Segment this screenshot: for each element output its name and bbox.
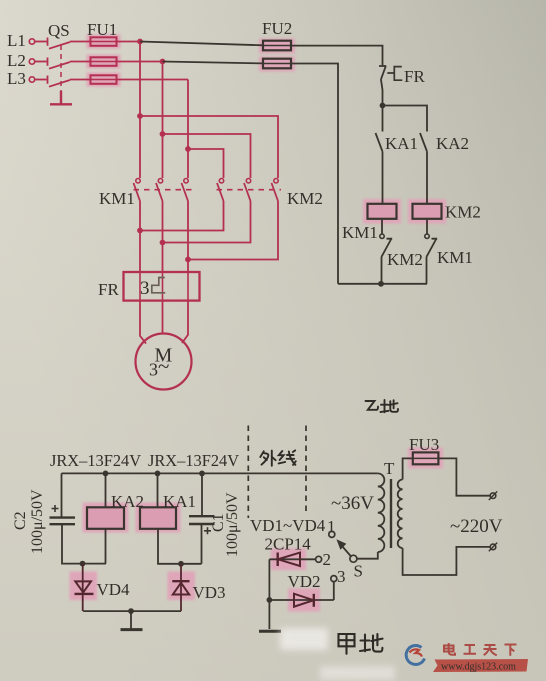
capacitor C2 — [50, 516, 76, 518]
white smudge bottom — [320, 666, 395, 680]
diode VD1 — [278, 553, 300, 567]
boundary dashed line 1 — [247, 426, 249, 519]
phase 3 below contact — [187, 201, 189, 272]
wire secondary top to FU3 — [403, 458, 413, 479]
svg-text:FR: FR — [98, 280, 119, 299]
node rail KA1 — [155, 471, 161, 477]
terminal L3 — [29, 77, 34, 82]
wire L3 to QS — [35, 79, 47, 81]
node cross 2 — [160, 240, 166, 246]
text 线 (xian, line) — [279, 450, 296, 465]
svg-text:L2: L2 — [7, 51, 26, 70]
transformer T primary winding — [378, 473, 385, 552]
wire L2 to QS — [35, 61, 47, 63]
wire L3 to KM2 contact a — [188, 149, 224, 178]
svg-text:FU2: FU2 — [262, 19, 292, 38]
node L3-KM2 branch — [185, 146, 191, 152]
node FR-KA split — [380, 103, 386, 109]
svg-text:QS: QS — [48, 21, 70, 40]
svg-text:L1: L1 — [7, 31, 26, 50]
highlighter mark VD4 — [70, 572, 98, 601]
wire KM2-c to phase3 — [188, 201, 278, 260]
fuse FU1-2 — [91, 57, 117, 66]
node cross 3 — [185, 257, 191, 263]
relay coil KA2 — [87, 507, 124, 529]
wire FU1 to phase bus 3 — [117, 79, 189, 81]
wire KM2-b to phase2 — [163, 201, 251, 243]
wire rail to KA1 coil — [157, 473, 159, 507]
node L2-KM2 branch — [160, 131, 166, 137]
boundary dashed line 2 — [305, 426, 307, 514]
capacitor C1 — [189, 515, 215, 517]
wire VD2 through — [269, 599, 333, 601]
wire FR to motor right — [182, 301, 188, 343]
contactor KM2 contact a — [219, 179, 223, 183]
wire L1 to KM2 contact c — [140, 116, 278, 178]
highlighter mark KM2 coil — [408, 199, 446, 224]
wire VD1 through — [269, 558, 315, 560]
switch S pivot — [350, 555, 357, 562]
svg-text:1: 1 — [327, 517, 336, 536]
wire FU2-2 long drop — [291, 64, 338, 284]
highlighter mark FU2 fuses — [259, 39, 295, 54]
svg-text:KM2: KM2 — [387, 250, 423, 269]
relay contact KA2 — [420, 133, 427, 204]
svg-text:KA1: KA1 — [385, 134, 418, 153]
svg-text:100μ/50V: 100μ/50V — [29, 489, 46, 554]
fuse FU2-1 — [263, 41, 291, 51]
svg-text:~36V: ~36V — [331, 493, 374, 514]
contactor KM1 contact 1 — [136, 179, 140, 183]
wire FR to motor mid — [162, 301, 164, 334]
contactor KM2 contact b — [246, 179, 250, 183]
watermark logo swirl — [406, 645, 424, 664]
wire split to KA2 branch — [383, 106, 428, 132]
fuse FU3 — [413, 452, 439, 464]
vertical wire to ground A — [268, 559, 270, 629]
svg-text:KM2: KM2 — [287, 189, 323, 208]
interlock contact KM1-NC — [425, 234, 429, 238]
phase wire 2 vertical — [162, 62, 164, 179]
highlighter mark KA1 coil — [136, 503, 181, 533]
ground symbol A — [259, 630, 281, 633]
wire FU2-1 to FR contact — [291, 46, 383, 66]
phase 1 below contact — [139, 201, 141, 272]
wire KA2 to VD4 node — [105, 529, 107, 564]
wire KM1 coil to NC — [381, 219, 383, 234]
wire rail down to C2 — [61, 473, 63, 517]
FR trip symbol — [387, 67, 402, 81]
svg-text:S: S — [354, 562, 363, 581]
node VD4 top — [80, 561, 86, 567]
text 乙 (yi, location B) — [366, 401, 379, 410]
highlighter mark VD1 — [271, 549, 306, 571]
svg-text:FU1: FU1 — [87, 20, 117, 39]
relay contact KA1 — [376, 133, 383, 204]
node rail C1 — [199, 471, 205, 477]
C1 plus sign — [204, 527, 211, 534]
C2 plus sign — [52, 505, 59, 512]
transformer core — [390, 479, 392, 548]
node L1-KM2 branch — [137, 113, 143, 119]
phase 2 below contact — [162, 201, 164, 272]
thermal contact FR — [379, 66, 386, 106]
svg-text:www.dgjs123.com: www.dgjs123.com — [441, 662, 516, 673]
ground bus left — [83, 610, 181, 612]
relay coil KA1 — [140, 507, 176, 529]
switch S contact 1 — [329, 531, 335, 537]
node rail KA2 — [103, 471, 109, 477]
svg-text:2: 2 — [323, 550, 332, 569]
wire C2 to VD4 node — [62, 524, 106, 563]
svg-text:L3: L3 — [7, 69, 26, 88]
diode VD3 — [172, 564, 189, 611]
watermark text 电工天下 — [444, 643, 517, 656]
text 甲 (jia, location A) — [339, 634, 355, 654]
thermal relay FR heater box — [124, 272, 200, 301]
node L2-FU2 — [160, 59, 166, 65]
motor M circle — [136, 334, 192, 390]
control bottom bus — [338, 283, 427, 285]
wire C1 down — [201, 524, 203, 564]
svg-text:VD2: VD2 — [288, 572, 321, 591]
svg-text:VD3: VD3 — [193, 583, 226, 602]
svg-text:FU3: FU3 — [409, 435, 439, 454]
svg-text:KA2: KA2 — [436, 134, 469, 153]
switch QS pole 1 — [48, 38, 91, 49]
wire VD2 to contact 3 — [333, 582, 335, 600]
svg-text:KM1: KM1 — [99, 189, 135, 208]
QS linkage — [60, 45, 62, 91]
highlighter mark KA2 coil — [83, 503, 129, 533]
wire KM2-a to phase1 — [140, 201, 224, 231]
fuse FU1-1 — [91, 37, 117, 46]
wire L2 to KM2 contact b — [163, 134, 251, 178]
phase wire 3 vertical — [187, 80, 189, 179]
svg-text:2CP14: 2CP14 — [265, 535, 312, 554]
wire primary to S pivot — [357, 552, 378, 559]
DC rail top — [62, 472, 378, 474]
svg-text:VD4: VD4 — [97, 580, 131, 599]
diode VD2 — [294, 594, 314, 607]
KM1 linkage dashes — [134, 189, 196, 191]
svg-text:VD1~VD4: VD1~VD4 — [250, 516, 326, 535]
node control bottom — [378, 281, 384, 287]
svg-text:KM1: KM1 — [342, 223, 378, 242]
wire KA1 to VD3 node — [158, 529, 202, 564]
contactor coil KM1 — [368, 204, 397, 219]
terminal L2 — [29, 59, 34, 64]
wire KM2 coil to NC — [426, 219, 428, 234]
svg-text:3: 3 — [337, 567, 346, 586]
svg-text:KA1: KA1 — [163, 492, 196, 511]
wire FU1 to phase bus 2 — [117, 61, 163, 63]
highlighter mark VD3 — [168, 572, 196, 601]
svg-text:KM1: KM1 — [437, 248, 473, 267]
transformer T secondary winding — [398, 480, 403, 549]
svg-text:KM2: KM2 — [445, 203, 481, 222]
svg-text:3: 3 — [140, 278, 150, 299]
switch QS pole 2 — [48, 58, 91, 69]
svg-text:C2: C2 — [12, 511, 29, 530]
terminal L1 — [29, 39, 34, 44]
contactor coil KM2 — [413, 204, 442, 219]
diode VD4 — [75, 564, 94, 612]
switch S blade arrow — [342, 546, 351, 557]
svg-text:T: T — [384, 459, 395, 478]
wire L2 node to FU2-2 — [163, 62, 264, 64]
contactor KM2 contact c — [274, 179, 278, 183]
text 地 (di) large — [360, 634, 383, 652]
svg-text:KA2: KA2 — [111, 492, 144, 511]
wire L1 to QS — [35, 41, 47, 43]
highlighter mark FU3 — [408, 448, 443, 469]
watermark ribbon — [433, 659, 528, 672]
svg-text:~220V: ~220V — [450, 516, 503, 537]
node L1-FU2 — [137, 39, 143, 45]
interlock contact KM2-NC — [380, 234, 384, 238]
svg-text:JRX–13F24V: JRX–13F24V — [50, 451, 141, 470]
phase wire 1 vertical — [139, 42, 141, 179]
highlighter mark VD2 — [288, 589, 320, 612]
ground symbol left — [130, 611, 132, 629]
svg-text:100μ/50V: 100μ/50V — [224, 492, 241, 557]
fuse FU2-2 — [263, 59, 291, 69]
terminal 220V top — [490, 493, 496, 499]
wire secondary bottom to terminal — [403, 547, 491, 575]
wires through FR box — [140, 272, 188, 301]
contactor KM1 contact 3 — [184, 179, 188, 183]
fuse FU1-3 — [91, 75, 117, 84]
switch S contact 3 — [331, 576, 337, 582]
highlighter mark FU1 fuses — [87, 35, 121, 49]
switch S contact 2 — [316, 556, 322, 562]
terminal 220V bottom — [490, 544, 496, 550]
switch QS pole 3 — [48, 76, 91, 87]
svg-text:FR: FR — [404, 67, 425, 86]
wire FR to motor left — [140, 301, 146, 344]
wire rail to KA2 coil — [105, 473, 107, 507]
svg-text:JRX–13F24V: JRX–13F24V — [148, 451, 239, 470]
highlighter mark KM1 coil — [363, 199, 401, 224]
text 外 (wai, external) — [260, 451, 275, 466]
KM2 linkage dashes — [217, 189, 282, 191]
node VD3 top — [178, 561, 184, 567]
text 地 (di) — [381, 400, 399, 412]
contactor KM1 contact 2 — [158, 179, 162, 183]
wire L1 node to FU2-1 — [140, 42, 263, 46]
wire split to KA1 branch — [382, 106, 384, 132]
node VD2 left — [267, 597, 273, 603]
wire FU1 to phase bus 1 — [117, 41, 141, 43]
node ground left — [128, 608, 134, 614]
wire rail to C1 — [201, 473, 203, 516]
white smudge left of jiadi — [280, 628, 328, 650]
node cross 1 — [137, 228, 143, 234]
wire FU3 to terminal top — [438, 458, 490, 495]
